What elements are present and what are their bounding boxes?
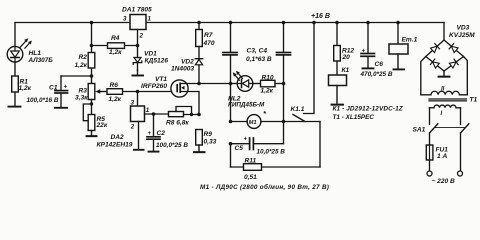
svg-text:+: + [64, 85, 68, 91]
switch SA1 [430, 124, 469, 133]
junction rail/C4 [282, 21, 286, 25]
svg-text:R7: R7 [204, 32, 213, 39]
wire DA2 pin2 to ground [138, 122, 140, 150]
ground for C2 [149, 151, 159, 153]
label C5 [235, 137, 286, 156]
wire right mains [460, 133, 462, 171]
svg-text:2: 2 [130, 124, 135, 131]
svg-text:~ 220 В: ~ 220 В [432, 178, 456, 185]
junction rail/R12 [335, 21, 339, 25]
svg-text:1,2к: 1,2к [261, 87, 274, 94]
wire M1 row corner down to R11 row [319, 122, 321, 168]
junction R2/R4 [90, 44, 94, 48]
resistor R2 [88, 53, 95, 69]
ground for R9 [194, 145, 205, 152]
svg-text:100,0*25 В: 100,0*25 В [156, 142, 188, 149]
resistor R6 [123, 91, 138, 93]
label R12 [342, 47, 355, 61]
svg-text:C5: C5 [235, 145, 244, 152]
capacitor C4 [277, 23, 291, 122]
label I [441, 111, 443, 117]
svg-text:1: 1 [146, 107, 150, 114]
label R10 [261, 74, 274, 94]
resistor R11 [231, 166, 321, 168]
svg-text:DA2: DA2 [111, 134, 125, 141]
svg-text:2: 2 [139, 33, 144, 40]
label R9 [204, 131, 217, 145]
ground for VD3 [439, 71, 450, 77]
svg-text:+: + [362, 48, 366, 54]
wire DA2 pin1 row [145, 113, 169, 115]
core [429, 99, 467, 101]
svg-text:1,2к: 1,2к [109, 96, 122, 103]
primary winding I [430, 105, 461, 108]
wire bridge left to secondary [421, 57, 426, 95]
label R4 [109, 35, 122, 56]
ground for R1 [9, 106, 21, 108]
label K1.1 [291, 106, 305, 113]
diode on top-left arm [430, 44, 439, 53]
ground for Em.1 [394, 54, 405, 69]
label II [441, 86, 445, 92]
label T1 [470, 97, 478, 104]
wire +16V top rail left segment [15, 22, 130, 24]
svg-text:3,3к: 3,3к [75, 94, 88, 101]
ground for K1 [332, 86, 344, 105]
capacitor C1 [55, 76, 68, 107]
svg-text:1,2к: 1,2к [19, 85, 32, 92]
electromagnet Em.1 [397, 23, 399, 45]
terminal right [458, 171, 463, 176]
svg-text:1: 1 [148, 16, 152, 23]
svg-text:R8 6,8к: R8 6,8к [166, 119, 189, 126]
wire C3 column to R11 corner [230, 144, 232, 167]
wire DA2 pin3 [137, 92, 139, 107]
svg-text:3: 3 [123, 16, 127, 23]
svg-text:IRFP260: IRFP260 [141, 83, 167, 90]
svg-text:C3, C4: C3, C4 [247, 48, 268, 55]
ground for VD1 [133, 70, 144, 75]
svg-text:Em.1: Em.1 [402, 37, 418, 44]
label R1 [19, 78, 32, 92]
label R2 [75, 54, 88, 69]
junction M1 row left [229, 120, 233, 124]
svg-text:VT1: VT1 [155, 76, 167, 83]
svg-text:R9: R9 [204, 131, 213, 138]
label VT1 [141, 76, 167, 90]
transistor VT1 [171, 80, 199, 115]
label FU1 [436, 146, 449, 160]
junction rail/Em.1 [396, 21, 400, 25]
capacitor C5 [231, 122, 284, 150]
label Em.1 [402, 37, 418, 44]
LED HL1 [7, 38, 32, 62]
IC DA2 [131, 106, 145, 122]
ground for DA2 [134, 149, 144, 151]
svg-text:1 А: 1 А [437, 153, 447, 160]
capacitor C3 [223, 23, 237, 84]
wire R2 column [91, 23, 93, 84]
wire bridge right to secondary [464, 57, 468, 95]
junction R10/C4 column [282, 82, 286, 86]
svg-text:470,0*25 В: 470,0*25 В [360, 71, 393, 78]
zener VD1 [133, 58, 142, 71]
svg-text:КР142ЕН19: КР142ЕН19 [97, 141, 133, 148]
label HL2 [228, 95, 265, 108]
R8 wiper bracket [176, 107, 192, 115]
junction C1 wire [90, 74, 94, 78]
svg-text:Т1 - XL15PEC: Т1 - XL15PEC [333, 114, 375, 121]
svg-text:20: 20 [342, 54, 351, 61]
label K1 [342, 67, 350, 74]
svg-text:KVJ25M: KVJ25M [449, 32, 475, 39]
svg-text:K1.1: K1.1 [291, 106, 305, 113]
svg-text:3: 3 [131, 99, 135, 106]
svg-text:II: II [441, 86, 445, 92]
label C6 [360, 48, 393, 78]
label M1 [249, 109, 267, 126]
fuse FU1 [429, 133, 431, 171]
svg-text:К1 - JD2912-12VDC-1Z: К1 - JD2912-12VDC-1Z [333, 106, 404, 113]
label R11 [244, 157, 257, 181]
diode on bottom-right arm [449, 59, 458, 68]
resistor R4 [92, 45, 138, 47]
svg-text:0,33: 0,33 [204, 138, 217, 145]
label VD3 [449, 25, 475, 39]
capacitor C2 [147, 114, 160, 151]
svg-text:R4: R4 [111, 35, 120, 42]
svg-text:К1: К1 [342, 67, 350, 74]
transformer T1 [421, 57, 468, 125]
junction C5/C3 column [229, 142, 233, 146]
label C3 C4 [246, 48, 272, 64]
svg-text:КИПД45Б-М: КИПД45Б-М [228, 102, 265, 109]
svg-text:100,0*16 В: 100,0*16 В [27, 97, 59, 104]
wire C3 column down [230, 84, 232, 122]
junction rail/C6 [366, 21, 370, 25]
resistor R7 [198, 23, 200, 30]
label C2 [148, 130, 189, 149]
junction R4/DA1 pin2 [136, 44, 140, 48]
svg-text:R2: R2 [79, 54, 88, 61]
IC DA1 7805 [130, 15, 146, 30]
wire drain row to HL2 column [199, 83, 231, 85]
ground for R5 [87, 131, 97, 137]
svg-text:10,0*25 В: 10,0*25 В [257, 149, 286, 156]
node +16 В label [311, 13, 330, 20]
junction pin1/C2 [152, 112, 156, 116]
relay contact K1.1 [293, 23, 314, 122]
junction rail/K1.1 [312, 21, 316, 25]
label R5 [96, 116, 108, 129]
diode VD2 [195, 47, 202, 84]
svg-text:R6: R6 [110, 82, 119, 89]
motor M1 [231, 115, 321, 129]
diode on top-right arm [449, 44, 458, 53]
trimmer R8 [169, 112, 184, 117]
resistor R5 [88, 115, 95, 131]
ground for C6 [363, 67, 374, 69]
capacitor C6 [361, 23, 375, 68]
resistor R12 [336, 23, 338, 46]
svg-text:470: 470 [203, 40, 215, 47]
junction gate/DA2 pin3 [136, 90, 140, 94]
LED HL2 [231, 71, 261, 92]
svg-text:R11: R11 [245, 157, 257, 164]
svg-text:0,51: 0,51 [244, 174, 257, 181]
svg-text:22к: 22к [96, 122, 108, 129]
label VD1 [144, 50, 168, 64]
R5 tap bracket [83, 104, 91, 121]
junction rail/R7 [197, 21, 201, 25]
svg-text:+16 В: +16 В [311, 13, 330, 20]
svg-text:VD1: VD1 [144, 50, 157, 57]
svg-text:0,1*63 В: 0,1*63 В [246, 56, 272, 63]
wire gate row to VT1 [138, 91, 172, 93]
svg-text:Т1: Т1 [470, 97, 478, 104]
svg-text:SA1: SA1 [413, 127, 426, 134]
secondary winding II [421, 91, 468, 95]
label C1 [27, 84, 68, 104]
label R6 [109, 82, 122, 103]
svg-text:1,2к: 1,2к [109, 49, 122, 56]
relay coil K1 [336, 61, 338, 75]
wire C1 to R2 column [61, 75, 92, 77]
wire R3 to R5 [91, 100, 93, 115]
wire DA1 pin2 column [137, 30, 139, 58]
svg-text:R3: R3 [79, 87, 88, 94]
svg-text:C2: C2 [157, 130, 166, 137]
junction drain node [197, 82, 201, 86]
label ~220 В [432, 178, 456, 185]
svg-text:VD3: VD3 [457, 25, 470, 32]
junction rail/C3 [229, 21, 233, 25]
label R3 [75, 87, 88, 101]
svg-text:VD2: VD2 [181, 59, 194, 66]
label HL1 [28, 50, 54, 64]
svg-text:C1: C1 [49, 84, 58, 91]
resistor R1 [12, 76, 19, 92]
bridge rectifier VD3 [426, 23, 464, 72]
label R8 [166, 119, 189, 126]
svg-text:1,2к: 1,2к [75, 62, 88, 69]
resistor R10 [261, 80, 276, 87]
junction M1 row / C4 column [282, 120, 286, 124]
diode on bottom-left arm [430, 59, 439, 68]
label VD2 [171, 59, 194, 73]
label DA1 [122, 6, 152, 39]
svg-text:+: + [244, 137, 248, 143]
label DA2 [97, 134, 133, 148]
svg-text:М1: М1 [249, 120, 257, 126]
svg-text:R10: R10 [262, 74, 274, 81]
potentiometer R3 [88, 84, 95, 100]
wire left column HL1/R1 [14, 23, 16, 107]
wire +16V top rail right segment [146, 22, 444, 24]
junction rail/R2 [90, 21, 94, 25]
resistor R9 [196, 130, 203, 146]
terminal left [427, 171, 432, 176]
label R7 [203, 32, 215, 47]
svg-text:М1 - ЛД90С (2800 об/мин, 90 Вт: М1 - ЛД90С (2800 об/мин, 90 Вт, 27 В) [200, 183, 329, 191]
note M1 type [200, 183, 329, 191]
R3 wiper arrow [99, 91, 107, 93]
ground for C1 [55, 107, 67, 109]
label SA1 [413, 127, 426, 134]
junction drain/C3 column [229, 82, 233, 86]
junction source/R8 [197, 113, 201, 117]
svg-text:+: + [148, 131, 152, 137]
svg-text:АЛ307Б: АЛ307Б [28, 57, 54, 64]
wire R10 to C4 column [275, 83, 284, 85]
svg-text:DA1 7805: DA1 7805 [122, 6, 152, 13]
svg-text:КД5126: КД5126 [145, 58, 169, 65]
wire R8 to R9 column [184, 114, 200, 116]
label K1/T1 types [333, 106, 404, 122]
svg-text:C6: C6 [375, 61, 384, 68]
svg-text:1N4003: 1N4003 [171, 66, 194, 73]
